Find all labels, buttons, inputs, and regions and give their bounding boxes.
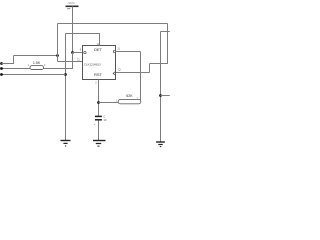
- wire C1 to ground: [98, 121, 100, 141]
- junction dot J2: [56, 54, 59, 57]
- wire vertical rail to pin11: [57, 24, 59, 62]
- ground G1 bar1: [61, 140, 71, 142]
- resistor R1 body: [30, 66, 44, 70]
- wire P3 horizontal: [2, 74, 66, 76]
- ground G2 bar3: [98, 145, 100, 147]
- resistor R2 body: [118, 99, 141, 103]
- ground G3 bar1: [156, 141, 165, 143]
- wire VCC vertical: [72, 6, 74, 52]
- wire P1 horizontal: [2, 63, 15, 65]
- wire vertical x=161 to ground: [160, 32, 162, 142]
- wire horizontal to top pin: [66, 33, 101, 35]
- clock edge mark on Q pin: [113, 72, 115, 76]
- wire pin 6 of U1: [73, 52, 84, 54]
- inversion bubble pin 6: [84, 51, 86, 53]
- wire R1 left lead to edge connector: [2, 68, 31, 70]
- ground G1 bar3: [65, 145, 66, 147]
- ground G2 bar1: [93, 140, 106, 142]
- inversion bubble right pin: [113, 50, 115, 52]
- svg-text:VCC: VCC: [68, 1, 75, 5]
- wire Q top run: [150, 63, 169, 65]
- wire vertical x=65 to ground: [65, 34, 67, 141]
- capacitor C1 bottom plate: [95, 119, 102, 121]
- wire vertical down to R2: [140, 52, 142, 103]
- junction dot J3: [159, 94, 162, 97]
- junction dot J4: [64, 73, 67, 76]
- ground G3 bar3: [160, 146, 162, 148]
- svg-text:C: C: [103, 114, 105, 118]
- wire jog to edge: [161, 31, 170, 33]
- wire U1 top pin: [99, 34, 101, 46]
- wire P1 riser: [13, 56, 15, 64]
- svg-text:+: +: [94, 122, 96, 126]
- wire right vertical x=167: [167, 24, 169, 65]
- svg-text:62K: 62K: [126, 94, 133, 98]
- ground G2 bar2: [96, 143, 101, 145]
- VCC bar tick: [67, 8, 70, 10]
- VCC power bar symbol: [66, 5, 79, 7]
- wire Q output horizontal: [116, 72, 150, 74]
- wire Q riser: [149, 64, 151, 73]
- svg-text:RST: RST: [94, 72, 103, 77]
- wire J5 to R2 left lead: [99, 102, 119, 104]
- junction dot J5: [97, 101, 100, 104]
- svg-text:CLK1234813: CLK1234813: [84, 62, 101, 66]
- svg-text:1.5K: 1.5K: [33, 61, 41, 65]
- wire right pin t1 of U1: [116, 51, 141, 53]
- svg-text:DET: DET: [94, 47, 103, 52]
- edge connector P3: [0, 73, 3, 76]
- ground G3 bar2: [158, 144, 162, 146]
- IC U1 box: [83, 46, 116, 80]
- wire P1 to junction J2: [14, 55, 58, 57]
- wire U1 bottom pin: [98, 80, 100, 116]
- edge connector P2: [0, 67, 3, 70]
- capacitor C1 top plate: [95, 115, 102, 117]
- ground G1 bar2: [63, 142, 67, 144]
- junction dot J1 (VCC / pin6 / R1): [71, 51, 74, 54]
- wire stub to right edge: [161, 95, 170, 97]
- edge connector P1: [0, 62, 3, 65]
- wire top rail: [58, 23, 168, 25]
- wire pin 11 of U1: [58, 61, 84, 63]
- wire VCC down to R1 level: [72, 53, 74, 70]
- wire R1 right lead: [44, 68, 73, 70]
